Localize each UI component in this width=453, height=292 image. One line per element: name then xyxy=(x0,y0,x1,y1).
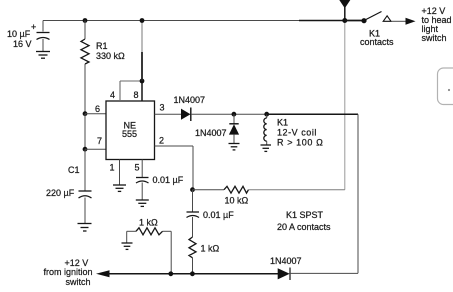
ground (D2) xyxy=(229,144,240,150)
wire R1 bottom to pin6 node xyxy=(84,64,86,114)
pin labels 4 8 6 7 3 2 1 5 xyxy=(95,90,165,173)
wire pin7 xyxy=(85,148,106,150)
timer IC U1 NE555 xyxy=(106,101,155,160)
wire top +12V rail xyxy=(43,20,364,22)
diode D3 1N4007 bottom xyxy=(278,268,290,281)
wire vcc drop to rail xyxy=(141,21,143,53)
label K1 coil xyxy=(277,118,323,148)
wire to 10k xyxy=(193,189,225,191)
ground (pin5 cap) xyxy=(136,200,149,206)
resistor 1k vertical xyxy=(189,237,196,258)
relay coil K1 xyxy=(264,114,267,144)
svg-text:12-V coil: 12-V coil xyxy=(277,128,317,138)
node K1 coil xyxy=(264,112,269,117)
svg-text:K1: K1 xyxy=(277,118,288,128)
switch K1 contacts xyxy=(361,12,391,24)
svg-text:7: 7 xyxy=(97,136,102,146)
svg-text:K1 SPST: K1 SPST xyxy=(286,210,324,220)
svg-text:from ignition: from ignition xyxy=(44,267,93,277)
resistor 1k horizontal xyxy=(127,228,172,235)
label R1 330k xyxy=(96,41,125,61)
svg-text:1 kΩ: 1 kΩ xyxy=(139,218,158,228)
svg-text:10 µF: 10 µF xyxy=(7,29,31,39)
svg-text:0.01 µF: 0.01 µF xyxy=(153,175,184,185)
svg-text:8: 8 xyxy=(134,90,139,100)
wire bottom rail right xyxy=(290,272,358,274)
pin 4 lead xyxy=(119,81,121,101)
ground (10uF) xyxy=(36,52,50,59)
svg-text:1N4007: 1N4007 xyxy=(174,95,206,105)
wire coil rail to corner xyxy=(267,113,358,115)
node rail-K1 xyxy=(342,18,347,23)
capacitor 0.01uF (pin5) xyxy=(136,178,149,200)
label K1 contacts xyxy=(360,29,394,48)
ground (K1 coil) xyxy=(261,145,272,151)
node dot top-left xyxy=(83,18,88,23)
capacitor C1 220uF xyxy=(79,191,92,223)
svg-text:+: + xyxy=(31,22,36,32)
wire 1k to bottom rail xyxy=(192,258,194,274)
wire node to node xyxy=(84,114,86,150)
svg-text:3: 3 xyxy=(160,103,165,113)
ground (1k horizontal) xyxy=(122,243,133,249)
node 4-8 xyxy=(140,79,145,84)
wire pin3 out xyxy=(155,113,182,115)
resistor R1 xyxy=(81,39,89,64)
svg-text:220 µF: 220 µF xyxy=(46,188,75,198)
wire rail to switch pole xyxy=(345,20,364,22)
svg-text:555: 555 xyxy=(122,129,137,139)
label C1 220uF xyxy=(46,165,80,198)
pin 8 lead xyxy=(141,81,143,101)
arrow +12V in (down) xyxy=(339,0,350,21)
svg-text:1N4007: 1N4007 xyxy=(270,256,302,266)
svg-text:16 V: 16 V xyxy=(13,39,32,49)
ground (C1) xyxy=(78,224,92,232)
pin 1 lead xyxy=(119,160,121,185)
pin 5 lead xyxy=(141,160,143,178)
label +12V to head light switch xyxy=(422,6,452,43)
wire 10k to feedback vertical xyxy=(249,189,345,191)
wire pin6 xyxy=(85,113,106,115)
svg-text:switch: switch xyxy=(422,33,447,43)
svg-text:4: 4 xyxy=(110,90,115,100)
wire K1 rail down right side xyxy=(357,114,359,273)
node rail-vcc xyxy=(140,18,145,23)
svg-text:20 A contacts: 20 A contacts xyxy=(277,222,331,232)
wire pin3 rail xyxy=(191,113,267,115)
label +12V from ignition switch xyxy=(44,258,93,287)
diode D2 1N4007 vertical xyxy=(229,114,239,143)
svg-text:0.01 µF: 0.01 µF xyxy=(203,210,234,220)
wire pin2 out xyxy=(155,146,194,190)
label K1 SPST contacts xyxy=(277,210,331,232)
svg-text:1 kΩ: 1 kΩ xyxy=(201,244,220,254)
node pin6 xyxy=(83,111,88,116)
diode D1 1N4007 xyxy=(181,108,191,122)
node pin7 xyxy=(83,147,88,152)
wire feedback vertical (rail to 10k) xyxy=(344,21,346,190)
label 10uF 16V xyxy=(7,29,32,49)
wire 1k left to ground xyxy=(126,231,128,242)
svg-text:R > 100 Ω: R > 100 Ω xyxy=(277,138,323,148)
svg-text:1N4007: 1N4007 xyxy=(195,128,227,138)
decorative rounded box top right xyxy=(438,68,453,105)
arrow +12V from ignition (left) xyxy=(96,270,110,277)
svg-text:1: 1 xyxy=(110,163,115,173)
svg-text:10 kΩ: 10 kΩ xyxy=(225,196,249,206)
wire 1k right down to rail xyxy=(170,231,172,273)
svg-text:switch: switch xyxy=(66,277,91,287)
wire junction to cap2 xyxy=(192,190,194,212)
svg-text:contacts: contacts xyxy=(360,37,394,47)
resistor 10k xyxy=(224,186,249,193)
wire 4-8 bracket xyxy=(120,80,142,82)
svg-text:R1: R1 xyxy=(96,41,108,51)
node 1k-vert xyxy=(190,271,195,276)
capacitor 10uF 16V xyxy=(31,21,50,52)
node pin2 junction xyxy=(190,187,195,192)
svg-text:330 kΩ: 330 kΩ xyxy=(96,51,125,61)
node 1k-horiz xyxy=(168,271,173,276)
svg-text:5: 5 xyxy=(135,163,140,173)
wire bottom rail left xyxy=(108,273,278,275)
wire R1 top lead xyxy=(84,21,86,40)
wire to headlight arrow xyxy=(391,18,416,25)
wire C1 top lead xyxy=(84,149,86,190)
capacitor 0.01uF (2nd) xyxy=(187,212,200,237)
svg-text:6: 6 xyxy=(95,104,100,114)
svg-text:C1: C1 xyxy=(68,165,80,175)
node D2 xyxy=(232,112,237,117)
svg-text:2: 2 xyxy=(159,136,164,146)
ground (pin1) xyxy=(113,185,126,191)
